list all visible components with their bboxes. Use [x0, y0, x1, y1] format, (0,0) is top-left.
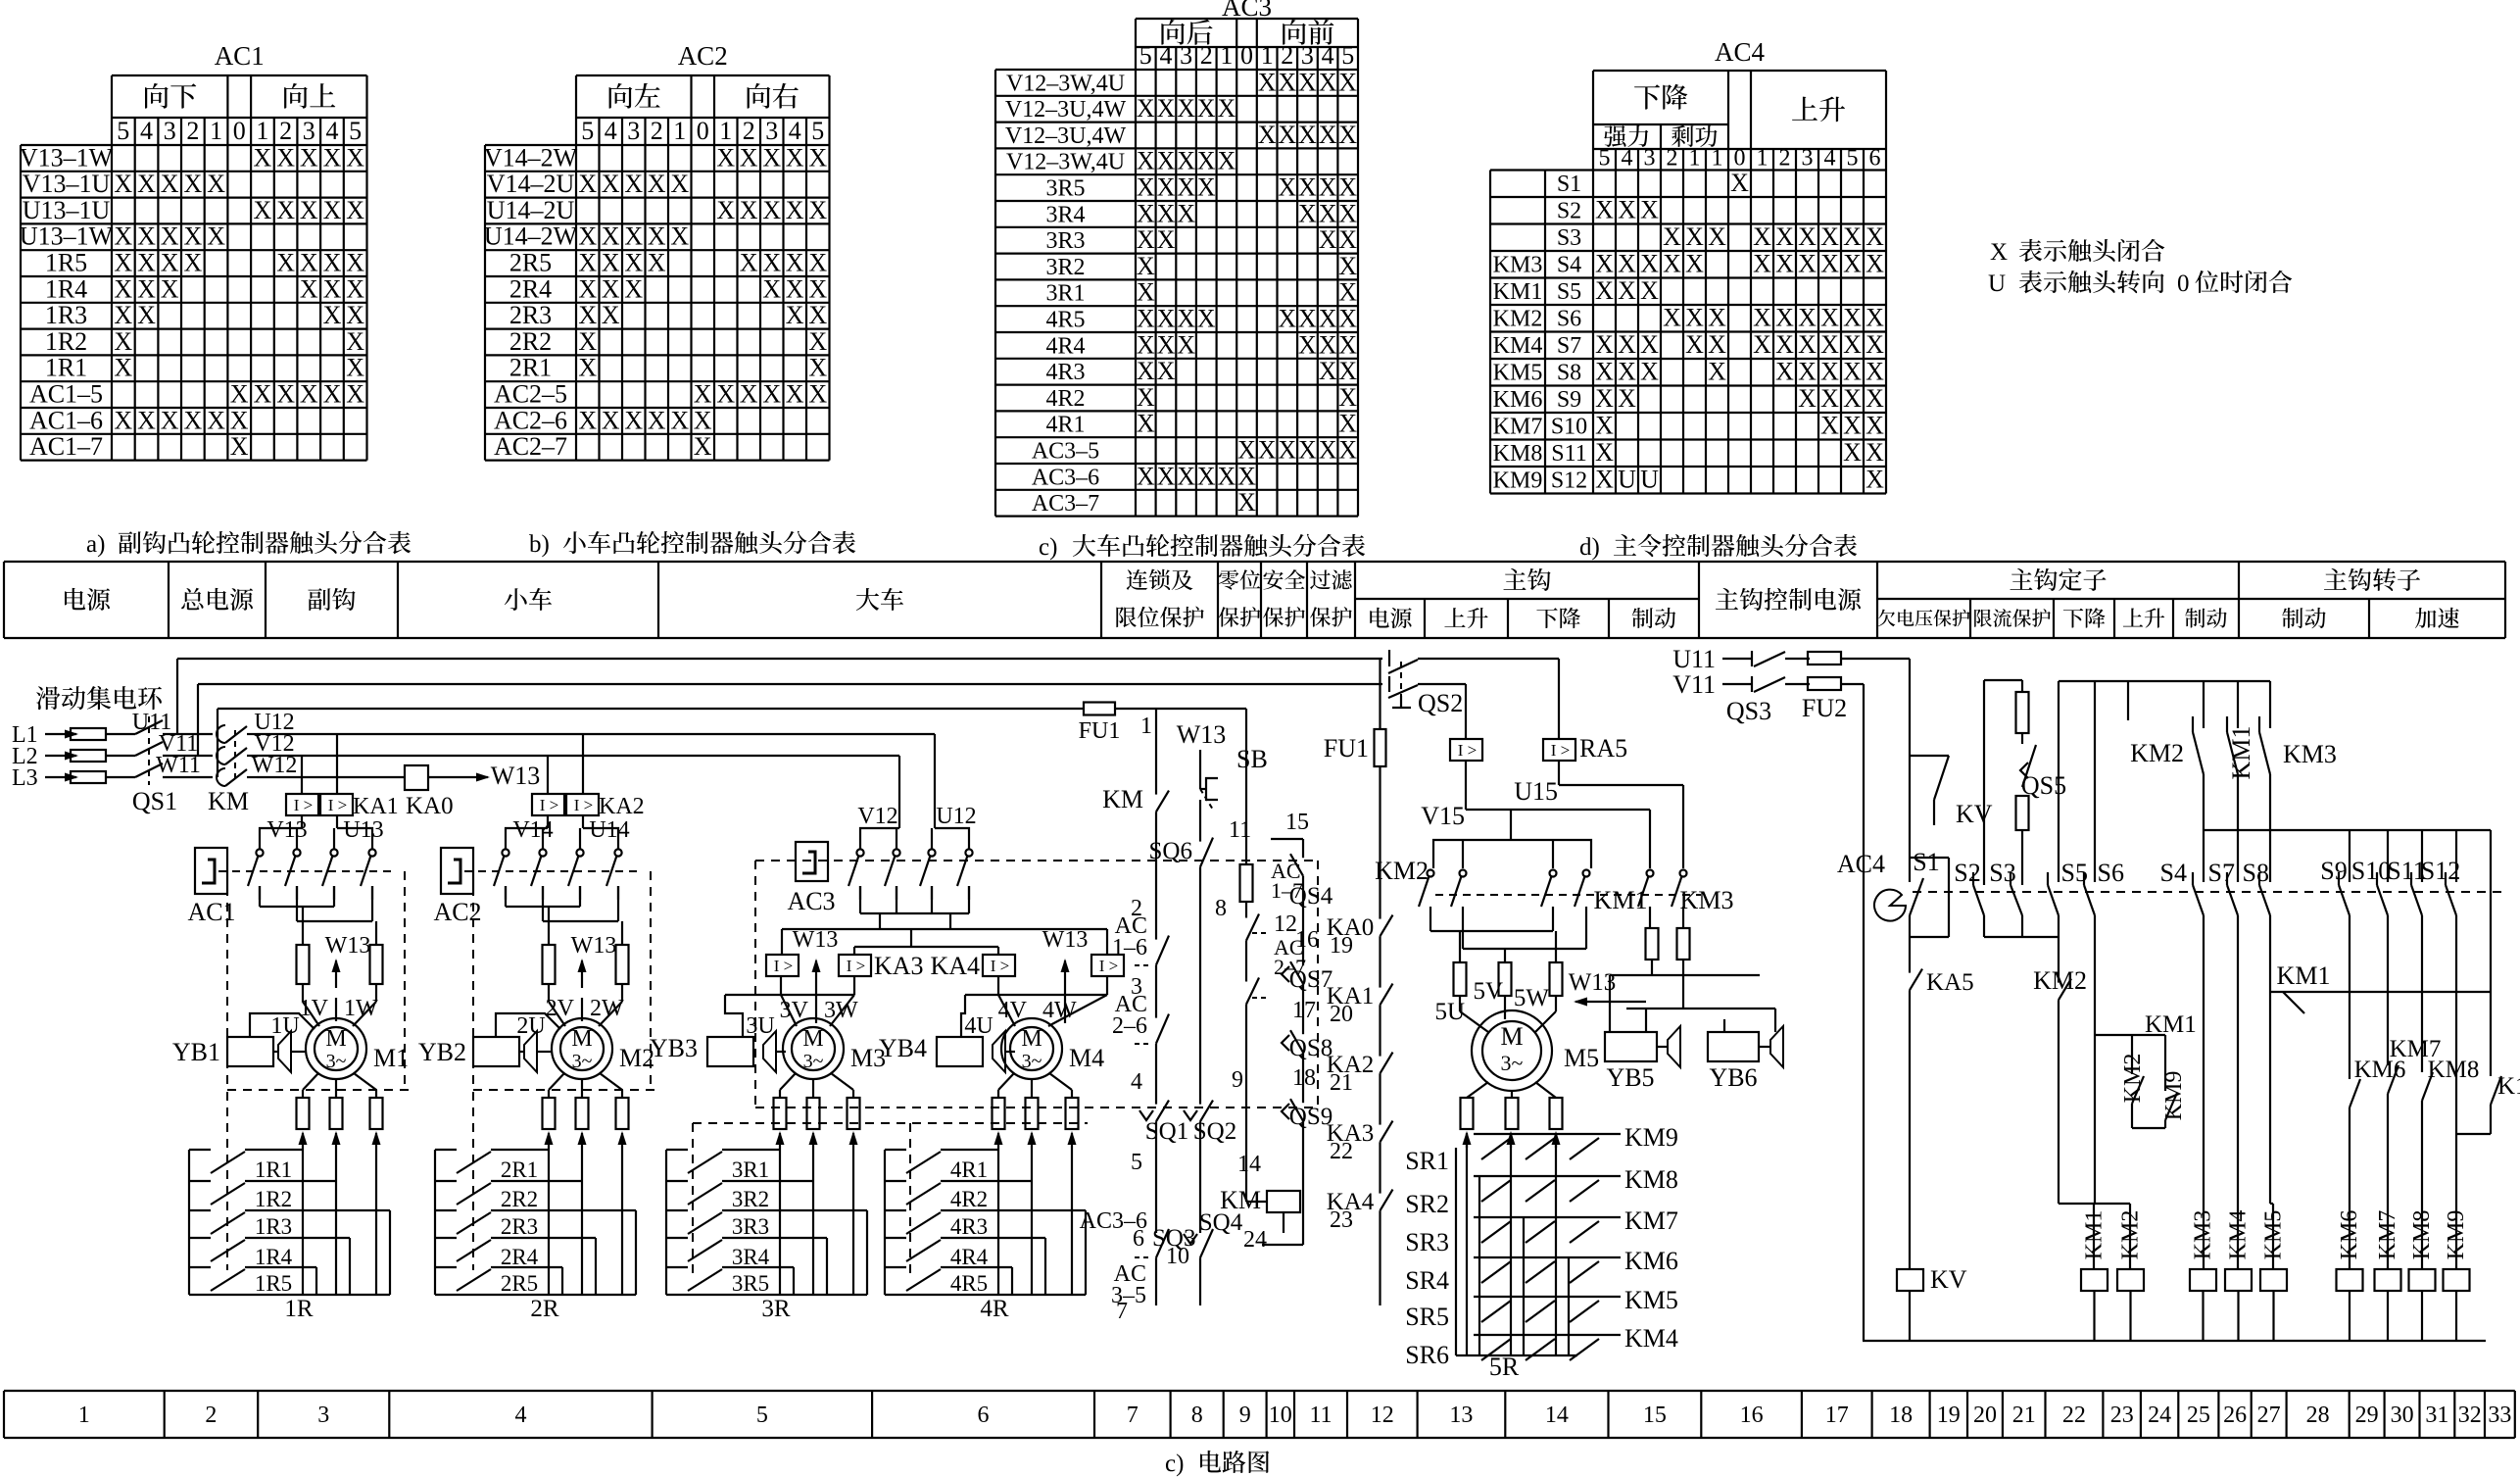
- svg-text:X: X: [694, 406, 712, 434]
- svg-text:SB: SB: [1236, 745, 1268, 773]
- svg-text:X: X: [1177, 94, 1195, 123]
- svg-text:X: X: [1298, 173, 1317, 202]
- label 4R5: [950, 1271, 988, 1296]
- svg-text:X: X: [1157, 225, 1176, 254]
- svg-text:X: X: [808, 143, 827, 172]
- svg-text:2R2: 2R2: [501, 1187, 538, 1211]
- svg-text:X: X: [1177, 147, 1195, 175]
- svg-text:X: X: [1237, 462, 1256, 490]
- svg-text:X: X: [323, 196, 342, 224]
- svg-text:YB3: YB3: [650, 1034, 698, 1062]
- svg-text:30: 30: [2391, 1403, 2414, 1428]
- resistor stator left M1: [297, 945, 310, 984]
- svg-text:22: 22: [2062, 1403, 2086, 1428]
- node 2: [1131, 823, 1156, 921]
- wire KM2 bridge: [1433, 810, 1591, 868]
- svg-text:KM4: KM4: [1493, 333, 1543, 359]
- svg-text:X: X: [161, 170, 179, 198]
- svg-text:X: X: [786, 301, 804, 329]
- svg-text:KM8: KM8: [1493, 441, 1543, 467]
- fuse FU2: [1802, 652, 1910, 722]
- svg-text:X: X: [161, 406, 179, 434]
- svg-text:X: X: [670, 170, 689, 198]
- svg-text:V11: V11: [1672, 670, 1716, 699]
- svg-text:S2: S2: [1557, 199, 1581, 224]
- svg-text:X: X: [1298, 121, 1317, 149]
- svg-text:X: X: [207, 222, 225, 251]
- voltage column QS5: [1984, 680, 2066, 887]
- svg-text:AC2–5: AC2–5: [494, 380, 567, 409]
- node SR1: [1405, 1147, 1449, 1175]
- relay coil KV: [1897, 1265, 1967, 1341]
- node 4V 4W: [998, 998, 1077, 1023]
- svg-text:X: X: [1640, 358, 1659, 386]
- svg-text:X: X: [1640, 276, 1659, 305]
- svg-text:X: X: [1137, 383, 1155, 412]
- svg-text:X: X: [300, 249, 318, 277]
- svg-text:5: 5: [349, 117, 362, 145]
- relay contact KA3: [1327, 1112, 1393, 1154]
- resistor stator right M2: [616, 945, 629, 984]
- svg-text:0: 0: [233, 117, 246, 145]
- svg-text:0: 0: [1734, 146, 1746, 172]
- svg-text:X: X: [1753, 330, 1771, 359]
- stop button SB: [1200, 745, 1268, 823]
- bottom column-number band: [4, 1391, 2515, 1438]
- svg-text:YB6: YB6: [1709, 1063, 1757, 1092]
- svg-text:X: X: [1685, 222, 1704, 251]
- table AC3 contact chart: [995, 0, 1358, 517]
- svg-text:SR3: SR3: [1405, 1228, 1449, 1256]
- contactor KM main contacts: [208, 725, 257, 815]
- svg-text:X: X: [254, 196, 272, 224]
- svg-text:X: X: [762, 274, 781, 303]
- contactor coil KM2: [2117, 1210, 2144, 1341]
- svg-text:X: X: [300, 143, 318, 172]
- label 2R3: [501, 1214, 538, 1239]
- contact AC2-6: [1112, 992, 1169, 1060]
- svg-text:X: X: [114, 301, 132, 329]
- svg-text:X: X: [786, 380, 804, 409]
- svg-text:M: M: [325, 1026, 346, 1052]
- svg-text:X: X: [1843, 412, 1862, 440]
- contact AC1-7: [1240, 859, 1304, 956]
- svg-text:31: 31: [2425, 1403, 2448, 1428]
- svg-text:KM: KM: [1220, 1186, 1261, 1214]
- wire mid bus: [2204, 830, 2491, 992]
- svg-text:X: X: [1775, 304, 1794, 332]
- caption c circuit diagram: [1165, 1451, 1269, 1477]
- svg-text:X: X: [114, 274, 132, 303]
- svg-text:YB2: YB2: [418, 1038, 466, 1066]
- svg-text:X: X: [254, 143, 272, 172]
- linkage dashed AC1: [218, 870, 393, 872]
- wire W13 feed M2: [571, 933, 617, 988]
- svg-text:SQ1: SQ1: [1145, 1118, 1188, 1145]
- master switch contact S2: [1973, 872, 1984, 937]
- svg-text:AC4: AC4: [1837, 850, 1885, 878]
- svg-text:X: X: [1640, 250, 1659, 278]
- svg-text:KA2: KA2: [599, 794, 645, 819]
- svg-text:I: I: [1458, 741, 1464, 760]
- svg-text:S7: S7: [1557, 333, 1581, 359]
- svg-text:11: 11: [1229, 817, 1251, 843]
- master switch contact S6: [2084, 859, 2124, 1035]
- svg-text:KM1: KM1: [2082, 1210, 2108, 1260]
- svg-text:KM5: KM5: [2261, 1210, 2287, 1260]
- svg-text:L3: L3: [12, 765, 38, 791]
- svg-text:4: 4: [1322, 41, 1334, 70]
- svg-text:3~: 3~: [572, 1051, 593, 1072]
- node 4U: [964, 1013, 993, 1039]
- svg-text:X: X: [1595, 196, 1614, 224]
- node W13: [491, 762, 541, 790]
- svg-text:X: X: [1866, 222, 1884, 251]
- svg-text:U13–1W: U13–1W: [20, 222, 114, 251]
- svg-text:3R2: 3R2: [732, 1187, 769, 1211]
- contact AC3-5: [1111, 1261, 1146, 1308]
- svg-text:X: X: [578, 301, 597, 329]
- svg-text:13: 13: [1449, 1403, 1473, 1428]
- resistor bank 3R: [666, 1131, 867, 1295]
- caption c-table: [1039, 534, 1365, 561]
- svg-text:>: >: [550, 796, 559, 814]
- svg-text:2: 2: [651, 117, 663, 145]
- svg-text:X: X: [1843, 384, 1862, 413]
- master switch contact S8 blade: [2259, 872, 2273, 1269]
- svg-text:U15: U15: [1514, 777, 1558, 806]
- svg-text:2R1: 2R1: [501, 1157, 538, 1182]
- svg-text:>: >: [304, 796, 314, 814]
- node 15: [1271, 810, 1309, 845]
- svg-text:AC4: AC4: [1715, 37, 1766, 67]
- svg-text:4: 4: [1622, 146, 1633, 172]
- svg-text:V12–3U,4W: V12–3U,4W: [1005, 97, 1127, 123]
- svg-text:X: X: [808, 301, 827, 329]
- wire QS chain bottom: [1262, 1133, 1303, 1245]
- svg-text:9: 9: [1239, 1403, 1251, 1428]
- label 1R2: [255, 1187, 292, 1211]
- node 9: [1232, 1067, 1243, 1093]
- wire stator bar M4: [965, 975, 1107, 1026]
- svg-text:27: 27: [2257, 1403, 2281, 1428]
- svg-text:KA3: KA3: [874, 952, 924, 980]
- label 3R1: [732, 1157, 769, 1182]
- contactor contact KM1 branch: [2270, 961, 2491, 1013]
- master switch contact S3: [2011, 872, 2022, 937]
- svg-text:X: X: [1595, 250, 1614, 278]
- wire W12 line: [257, 776, 405, 778]
- limit switch QS7: [1282, 953, 1333, 996]
- relay contact KA1: [1327, 975, 1393, 1016]
- contactor coil KM1: [2081, 1210, 2108, 1341]
- svg-text:X: X: [1177, 330, 1195, 359]
- svg-text:25: 25: [2187, 1403, 2210, 1428]
- linkage dashed AC2: [464, 870, 639, 872]
- svg-text:KM3: KM3: [1493, 253, 1543, 278]
- svg-text:X: X: [1866, 358, 1884, 386]
- wire stator bar M3: [725, 975, 854, 1026]
- svg-text:X: X: [1157, 147, 1176, 175]
- svg-text:d): d): [1579, 534, 1600, 561]
- svg-text:X: X: [808, 380, 827, 409]
- svg-text:AC3–5: AC3–5: [1032, 439, 1099, 465]
- svg-text:X: X: [740, 196, 758, 224]
- contactor coil KM5: [2260, 1210, 2287, 1341]
- table AC1 contact chart: [20, 41, 367, 461]
- svg-text:S7: S7: [2208, 859, 2235, 887]
- svg-text:3R3: 3R3: [732, 1214, 769, 1239]
- svg-text:1: 1: [719, 117, 732, 145]
- svg-text:X: X: [1775, 330, 1794, 359]
- wire riser W: [217, 709, 218, 777]
- svg-text:X: X: [786, 274, 804, 303]
- node 23: [1330, 1207, 1381, 1305]
- svg-text:X: X: [114, 170, 132, 198]
- svg-text:X: X: [1640, 196, 1659, 224]
- svg-text:S3: S3: [1989, 859, 2015, 887]
- svg-text:16: 16: [1295, 927, 1319, 953]
- svg-text:RA5: RA5: [1579, 734, 1627, 763]
- svg-text:X: X: [1798, 222, 1817, 251]
- svg-text:2R5: 2R5: [509, 249, 552, 277]
- svg-text:1: 1: [1712, 146, 1723, 172]
- svg-text:X: X: [1866, 330, 1884, 359]
- svg-text:8: 8: [1191, 1403, 1203, 1428]
- svg-text:17: 17: [1825, 1403, 1849, 1428]
- svg-text:X: X: [1197, 147, 1216, 175]
- svg-text:S12: S12: [1551, 468, 1587, 494]
- svg-text:X: X: [1298, 199, 1317, 227]
- svg-text:X: X: [1278, 305, 1296, 333]
- label 3R4: [732, 1245, 770, 1269]
- svg-text:X: X: [276, 196, 295, 224]
- svg-text:X: X: [161, 222, 179, 251]
- svg-text:S9: S9: [1557, 387, 1581, 413]
- svg-text:X: X: [602, 249, 620, 277]
- svg-text:AC2: AC2: [433, 898, 481, 926]
- svg-text:QS2: QS2: [1418, 689, 1463, 717]
- svg-text:X: X: [716, 143, 735, 172]
- svg-text:AC1–6: AC1–6: [29, 406, 103, 434]
- svg-text:16: 16: [1740, 1403, 1764, 1428]
- svg-text:b): b): [529, 531, 550, 558]
- section header band: [4, 562, 2505, 638]
- svg-text:X: X: [716, 380, 735, 409]
- cam controller symbol AC1: [187, 848, 235, 926]
- svg-text:X: X: [602, 301, 620, 329]
- svg-text:V12–3W,4U: V12–3W,4U: [1006, 150, 1125, 175]
- wire motor leads M2: [549, 984, 622, 1026]
- svg-text:X: X: [161, 249, 179, 277]
- svg-text:X: X: [1197, 305, 1216, 333]
- svg-text:W13: W13: [1177, 720, 1227, 749]
- svg-text:3: 3: [1644, 146, 1656, 172]
- svg-text:S12: S12: [2421, 857, 2460, 885]
- svg-text:X: X: [1708, 358, 1726, 386]
- svg-text:QS3: QS3: [1726, 697, 1771, 725]
- node 3V 3W: [780, 998, 858, 1023]
- svg-text:X: X: [1157, 199, 1176, 227]
- svg-text:3R1: 3R1: [732, 1157, 769, 1182]
- svg-text:S9: S9: [2320, 857, 2347, 885]
- svg-text:X: X: [1595, 438, 1614, 467]
- svg-text:1R4: 1R4: [255, 1245, 293, 1269]
- svg-text:M: M: [1500, 1022, 1523, 1051]
- svg-text:M: M: [1021, 1026, 1042, 1052]
- svg-text:X: X: [1237, 436, 1256, 465]
- svg-text:X: X: [786, 249, 804, 277]
- svg-text:X: X: [1338, 357, 1357, 385]
- table AC4 master controller chart: [1490, 37, 1886, 494]
- svg-text:1: 1: [1689, 146, 1701, 172]
- svg-text:KA5: KA5: [1926, 969, 1974, 996]
- wire column S4 upper: [2160, 774, 2204, 887]
- resistor rotor M5 set: [1461, 1098, 1563, 1129]
- svg-text:0: 0: [697, 117, 709, 145]
- terminal L3: [12, 765, 135, 791]
- svg-text:X: X: [323, 249, 342, 277]
- svg-text:5V: 5V: [1473, 978, 1503, 1005]
- svg-text:X: X: [114, 222, 132, 251]
- switch QS1: [132, 716, 213, 815]
- label 2R5: [501, 1271, 538, 1296]
- svg-text:X: X: [578, 354, 597, 382]
- svg-text:X: X: [346, 249, 364, 277]
- svg-text:4: 4: [515, 1403, 527, 1428]
- contactor coil KM9: [2444, 1210, 2470, 1341]
- wire rail S1 upper: [1909, 659, 1911, 882]
- svg-text:X: X: [1798, 384, 1817, 413]
- svg-text:a): a): [86, 531, 105, 558]
- svg-text:I: I: [294, 796, 300, 814]
- relay KA3 overcurrent elements: [766, 952, 924, 980]
- terminal L1: [12, 722, 135, 748]
- svg-text:X: X: [300, 380, 318, 409]
- svg-text:X: X: [1338, 436, 1357, 465]
- svg-text:X: X: [323, 301, 342, 329]
- svg-text:X: X: [346, 143, 364, 172]
- wire rail left: [1863, 684, 1865, 1341]
- svg-text:X: X: [1685, 304, 1704, 332]
- svg-text:AC1–5: AC1–5: [29, 380, 103, 409]
- label 3R: [761, 1296, 791, 1322]
- dashed boundary rotor 3R 4R: [693, 1123, 1088, 1274]
- node U13: [343, 817, 383, 843]
- wire rotor leads M4: [998, 1073, 1072, 1098]
- svg-text:X: X: [1197, 173, 1216, 202]
- svg-text:X: X: [1218, 94, 1236, 123]
- svg-text:3: 3: [1802, 146, 1814, 172]
- svg-text:X: X: [1843, 330, 1862, 359]
- svg-text:U13: U13: [343, 817, 383, 843]
- svg-text:X: X: [1338, 68, 1357, 96]
- svg-text:X: X: [1338, 199, 1357, 227]
- svg-text:S6: S6: [1557, 307, 1581, 332]
- svg-text:QS4: QS4: [1289, 883, 1333, 910]
- wire hook crossover: [1430, 911, 1586, 962]
- svg-text:X: X: [1157, 305, 1176, 333]
- svg-text:3: 3: [627, 117, 640, 145]
- wire W13 feed M3: [793, 927, 839, 1023]
- wire V14 drop: [547, 756, 549, 794]
- master switch contact S12: [2421, 857, 2460, 1134]
- svg-text:X: X: [624, 222, 643, 251]
- node 3: [1131, 974, 1156, 1000]
- svg-text:KM2: KM2: [2033, 966, 2087, 995]
- svg-text:2R: 2R: [530, 1296, 559, 1322]
- motor M1: [306, 1018, 409, 1079]
- wire bus W11-W13: [218, 708, 1246, 710]
- fuse FU1 vertical: [1324, 729, 1386, 766]
- svg-text:6: 6: [1869, 146, 1881, 172]
- node U12 drop: [935, 734, 977, 829]
- svg-text:AC3–6: AC3–6: [1032, 465, 1099, 490]
- svg-text:YB5: YB5: [1606, 1063, 1654, 1092]
- svg-text:X: X: [1338, 121, 1357, 149]
- svg-text:X: X: [740, 249, 758, 277]
- svg-text:X: X: [323, 143, 342, 172]
- node SR6: [1405, 1341, 1449, 1369]
- contactor contact KM7: [2388, 1036, 2441, 1269]
- node 20: [1330, 1002, 1381, 1044]
- svg-text:2R1: 2R1: [509, 354, 552, 382]
- node 1U: [270, 1013, 299, 1039]
- svg-text:QS1: QS1: [132, 787, 177, 815]
- svg-text:X: X: [137, 274, 156, 303]
- svg-text:3~: 3~: [1022, 1051, 1042, 1072]
- svg-text:X: X: [1798, 330, 1817, 359]
- svg-text:KM8: KM8: [2428, 1057, 2480, 1083]
- label 1R1: [255, 1157, 292, 1182]
- svg-text:X: X: [1618, 196, 1636, 224]
- svg-text:X: X: [184, 170, 203, 198]
- svg-text:4R: 4R: [980, 1296, 1009, 1322]
- wire U hook: [1418, 659, 1559, 739]
- svg-text:1R1: 1R1: [45, 354, 87, 382]
- label 5R: [1489, 1353, 1520, 1381]
- svg-text:U: U: [1618, 466, 1636, 494]
- master switch contact S10: [2351, 857, 2391, 1065]
- svg-text:KM: KM: [1102, 785, 1143, 813]
- svg-text:KM7: KM7: [2375, 1210, 2400, 1260]
- contact AC3-6: [1080, 1208, 1169, 1274]
- cam controller symbol AC2: [433, 848, 481, 926]
- wire 4U branch: [961, 995, 965, 1037]
- svg-text:>: >: [1561, 741, 1571, 760]
- node 17: [1292, 996, 1316, 1023]
- node 16: [1295, 888, 1319, 953]
- svg-text:KV: KV: [1930, 1265, 1967, 1294]
- contact AC1-6: [1112, 913, 1169, 982]
- wire V12 line: [257, 755, 899, 757]
- svg-text:V14–2U: V14–2U: [487, 170, 575, 198]
- svg-text:X: X: [1319, 436, 1337, 465]
- contactor contacts KM2 KM1 KM3 poles: [1375, 857, 1733, 914]
- svg-text:X: X: [114, 249, 132, 277]
- svg-text:X: X: [1618, 276, 1636, 305]
- svg-text:1R5: 1R5: [255, 1271, 292, 1296]
- svg-text:W13: W13: [325, 933, 371, 959]
- motor M5: [1472, 1010, 1599, 1091]
- svg-text:X: X: [276, 249, 295, 277]
- brake YB4: [879, 1031, 1015, 1072]
- label 2R2: [501, 1187, 538, 1211]
- svg-text:1–6: 1–6: [1112, 935, 1147, 960]
- svg-text:X: X: [1177, 173, 1195, 202]
- svg-text:KA1: KA1: [353, 794, 399, 819]
- svg-text:X: X: [1775, 358, 1794, 386]
